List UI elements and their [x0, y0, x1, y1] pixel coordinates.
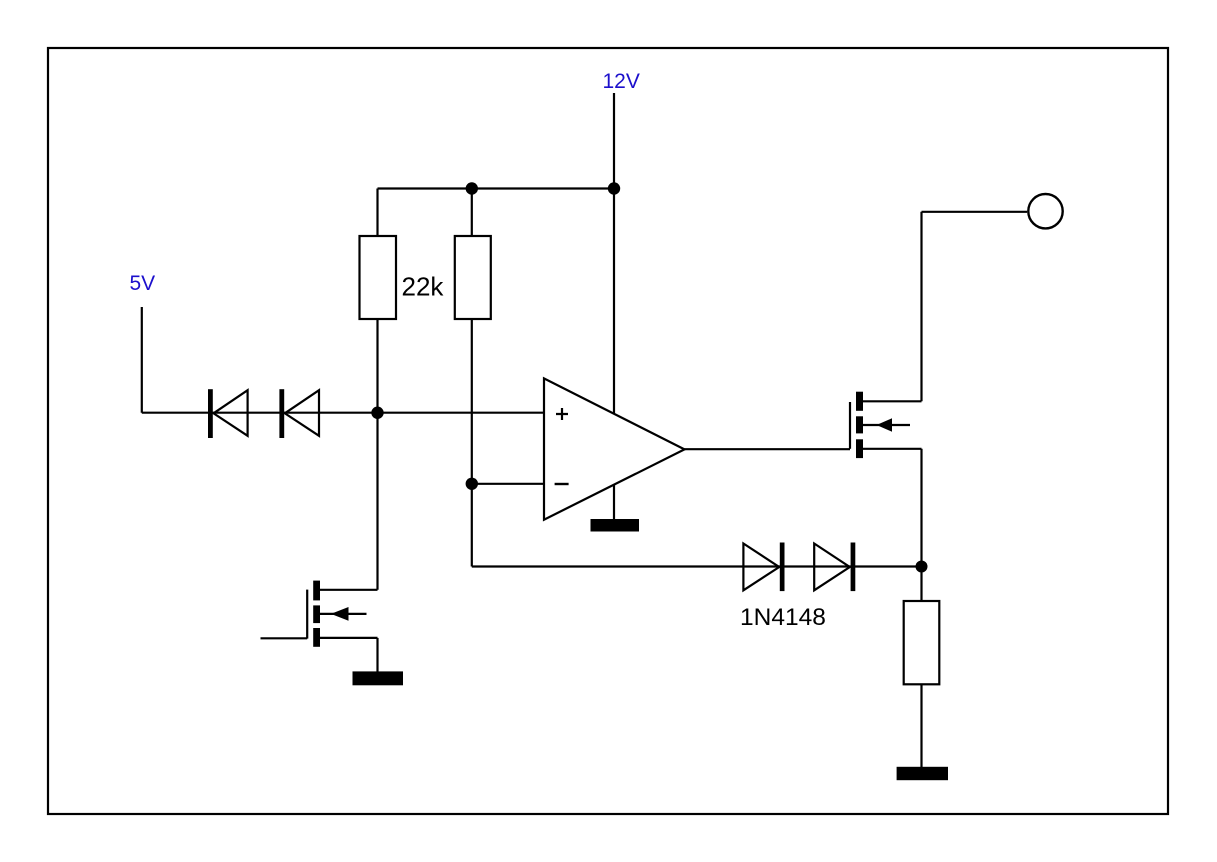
- wire top rail: [378, 187, 615, 189]
- wire 12V vertical: [613, 93, 615, 413]
- svg-text:22k: 22k: [402, 271, 445, 301]
- wire 5V vertical: [141, 307, 143, 413]
- resistor R3: [904, 601, 940, 684]
- wire R2 top lead: [471, 189, 473, 237]
- wire Q2 drain vertical: [376, 413, 378, 590]
- op-amp U1: [544, 378, 685, 519]
- node junction inverting input: [466, 478, 478, 490]
- wire Q2 source vertical: [376, 638, 378, 672]
- wire Q2 source lead: [320, 637, 378, 639]
- svg-text:12V: 12V: [603, 70, 640, 93]
- wire inverting input: [472, 483, 544, 485]
- wire Q2 drain lead: [320, 589, 378, 591]
- node junction noninverting row: [371, 407, 383, 419]
- node junction top 12V: [608, 182, 620, 194]
- node junction feedback: [916, 561, 928, 573]
- wire R1 top lead: [376, 189, 378, 237]
- diode D3 1N4148: [743, 543, 784, 592]
- wire feedback row: [472, 565, 922, 567]
- resistor R2: [455, 236, 491, 319]
- ground op-amp: [591, 519, 640, 532]
- wire op-amp output to Q1 gate: [685, 448, 851, 450]
- wire R1 bottom lead: [376, 319, 378, 413]
- transistor Q2 nmos: [307, 581, 366, 647]
- resistor R1 22k: [360, 236, 397, 319]
- svg-text:5V: 5V: [130, 272, 156, 295]
- terminal output pad: [1028, 194, 1062, 228]
- wire R2 bottom lead to inverting node: [471, 319, 473, 567]
- svg-text:1N4148: 1N4148: [740, 604, 826, 631]
- node junction top R2: [466, 182, 478, 194]
- wire R3 bottom lead: [920, 684, 922, 767]
- wire output to terminal: [922, 211, 1028, 213]
- transistor Q1 nmos: [850, 392, 910, 458]
- diode D2: [279, 389, 319, 438]
- diode D4 1N4148: [814, 543, 855, 592]
- wire Q1 source vertical: [920, 449, 922, 601]
- wire op-amp gnd stem: [613, 485, 615, 520]
- wire Q1 drain vertical: [920, 212, 922, 401]
- ground R3: [897, 767, 948, 780]
- ground Q2: [353, 671, 404, 685]
- wire Q1 drain lead: [863, 400, 922, 402]
- wire noninverting input row: [142, 412, 544, 414]
- wire Q2 gate stub: [261, 637, 308, 639]
- wire Q1 source lead: [863, 448, 922, 450]
- diode D1: [208, 389, 248, 438]
